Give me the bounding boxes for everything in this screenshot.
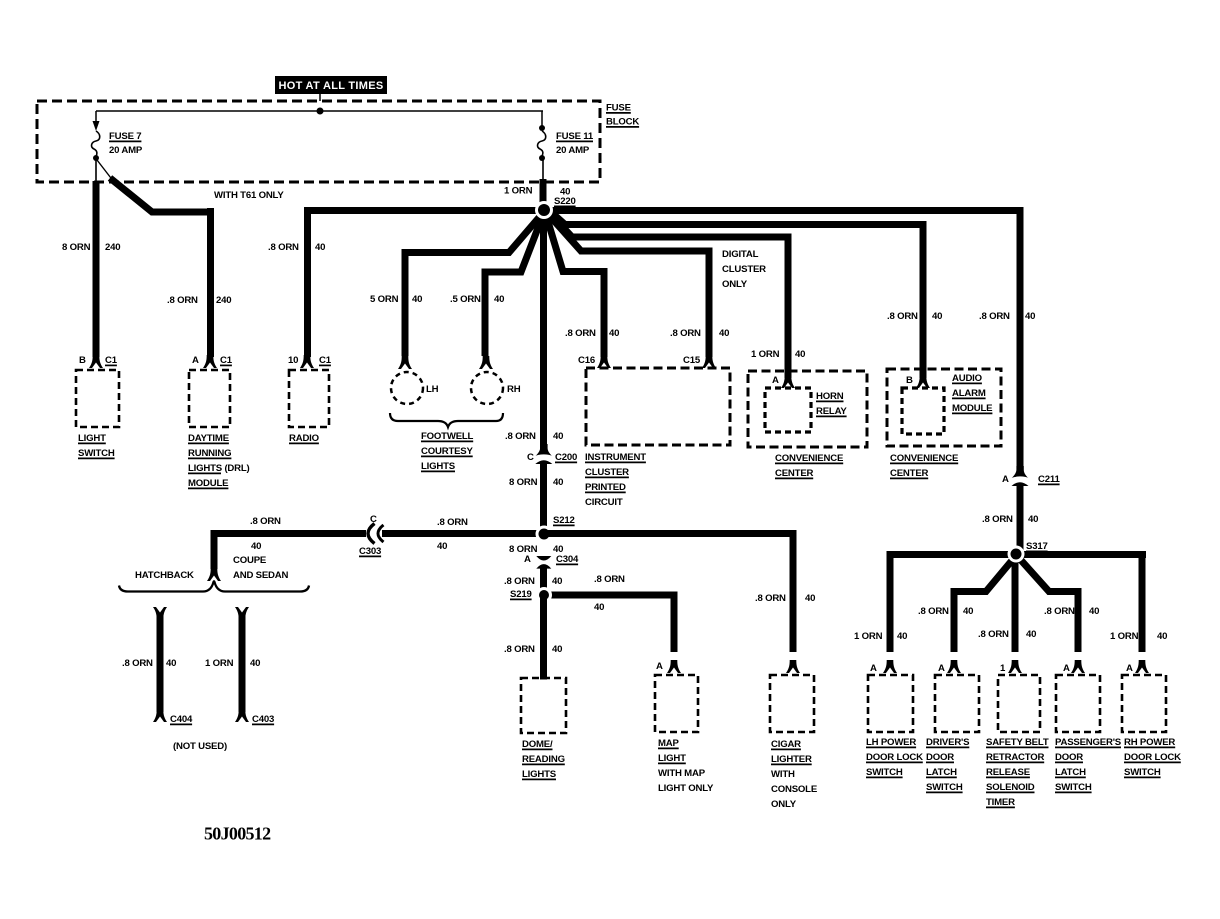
svg-text:C211: C211 xyxy=(1038,474,1060,485)
svg-text:MODULE: MODULE xyxy=(188,478,229,489)
fuse block dashed box xyxy=(37,101,600,182)
wire label .8 ORN 40 above C200 xyxy=(505,431,563,442)
svg-text:A: A xyxy=(524,554,531,565)
svg-text:SWITCH: SWITCH xyxy=(1124,767,1161,778)
svg-text:1 ORN: 1 ORN xyxy=(854,631,883,642)
svg-text:HORN: HORN xyxy=(816,391,844,402)
note NOT USED xyxy=(173,741,227,752)
passengers door latch switch xyxy=(1055,675,1122,793)
svg-text:40: 40 xyxy=(494,294,504,305)
svg-text:.8 ORN: .8 ORN xyxy=(755,593,786,604)
wire S220 to horn relay, 1 ORN 40 xyxy=(550,213,805,378)
svg-text:.8 ORN: .8 ORN xyxy=(979,311,1010,322)
svg-text:CENTER: CENTER xyxy=(890,468,929,479)
radio xyxy=(289,370,329,444)
RH footwell lamp xyxy=(471,356,521,404)
svg-text:LIGHT ONLY: LIGHT ONLY xyxy=(658,783,714,794)
svg-text:50J00512: 50J00512 xyxy=(204,824,271,844)
connector C200 pin C xyxy=(527,444,577,464)
svg-text:LH: LH xyxy=(426,384,439,395)
svg-text:S219: S219 xyxy=(510,589,532,600)
svg-text:40: 40 xyxy=(552,576,562,587)
svg-text:WITH T61 ONLY: WITH T61 ONLY xyxy=(214,190,284,201)
svg-text:C303: C303 xyxy=(359,546,381,557)
wire S219 to dome lights, .8 ORN 40 xyxy=(504,595,562,680)
audio alarm pin B xyxy=(906,375,930,388)
svg-text:(NOT USED): (NOT USED) xyxy=(173,741,227,752)
svg-text:LATCH: LATCH xyxy=(926,767,957,778)
svg-text:40: 40 xyxy=(795,349,805,360)
svg-text:DOOR LOCK: DOOR LOCK xyxy=(866,752,923,763)
svg-text:CONSOLE: CONSOLE xyxy=(771,784,818,795)
svg-text:DAYTIME: DAYTIME xyxy=(188,433,230,444)
svg-text:40: 40 xyxy=(166,658,176,669)
svg-text:LIGHTS: LIGHTS xyxy=(421,461,456,472)
svg-text:C1: C1 xyxy=(319,355,332,366)
connector C1 light switch pin B xyxy=(79,355,118,368)
svg-text:ALARM: ALARM xyxy=(952,388,986,399)
bus wire inside fuse block xyxy=(96,110,543,112)
LH footwell lamp xyxy=(391,356,439,404)
svg-text:MODULE: MODULE xyxy=(952,403,993,414)
svg-text:S212: S212 xyxy=(553,515,575,526)
brace hatchback group xyxy=(119,581,309,591)
connector C303 pin C xyxy=(359,514,384,557)
map light xyxy=(655,675,714,794)
svg-text:DOME/: DOME/ xyxy=(522,739,553,750)
svg-text:ONLY: ONLY xyxy=(722,279,748,290)
svg-text:S220: S220 xyxy=(554,196,576,207)
svg-text:S317: S317 xyxy=(1026,541,1048,552)
svg-text:.8 ORN: .8 ORN xyxy=(887,311,918,322)
connector C1 radio pin 10 xyxy=(288,355,332,368)
svg-text:TIMER: TIMER xyxy=(986,797,1015,808)
drivers door latch switch xyxy=(926,675,979,793)
svg-text:A: A xyxy=(1063,663,1070,674)
svg-text:SWITCH: SWITCH xyxy=(926,782,963,793)
svg-text:240: 240 xyxy=(216,295,231,306)
svg-text:COUPE: COUPE xyxy=(233,555,267,566)
svg-text:RUNNING: RUNNING xyxy=(188,448,231,459)
svg-text:HOT AT ALL TIMES: HOT AT ALL TIMES xyxy=(278,80,383,92)
svg-text:C: C xyxy=(370,514,377,525)
svg-text:40: 40 xyxy=(1028,514,1038,525)
svg-text:C200: C200 xyxy=(555,452,577,463)
passengers door latch switch pin A xyxy=(1063,660,1085,674)
svg-text:A: A xyxy=(656,661,663,672)
svg-text:.8 ORN: .8 ORN xyxy=(670,328,701,339)
svg-text:CONVENIENCE: CONVENIENCE xyxy=(775,453,844,464)
svg-text:C: C xyxy=(527,452,534,463)
wire S317 to RH power door lock switch, 1 ORN 40 xyxy=(1110,551,1167,652)
note DIGITAL CLUSTER ONLY xyxy=(722,249,766,290)
svg-text:40: 40 xyxy=(552,644,562,655)
svg-text:INSTRUMENT: INSTRUMENT xyxy=(585,452,646,463)
svg-text:B: B xyxy=(906,375,913,386)
wire fuse11 to splice S220, 1 ORN 40 xyxy=(504,158,570,212)
svg-text:40: 40 xyxy=(719,328,729,339)
svg-text:LIGHT: LIGHT xyxy=(78,433,106,444)
fuse F7 20A xyxy=(92,111,143,161)
drivers door latch switch pin A xyxy=(938,660,961,674)
svg-text:40: 40 xyxy=(437,541,447,552)
bus junction node xyxy=(317,108,324,115)
cigar lighter connector xyxy=(786,660,800,673)
RH power door lock switch xyxy=(1122,675,1181,778)
svg-text:RH: RH xyxy=(507,384,521,395)
svg-text:SWITCH: SWITCH xyxy=(866,767,903,778)
svg-text:.8 ORN: .8 ORN xyxy=(918,606,949,617)
RH power door lock switch pin A xyxy=(1126,660,1149,674)
splice S219 xyxy=(510,587,552,603)
wire S219 to map light, .8 ORN 40 xyxy=(544,574,674,652)
connector C1 DRL pin A xyxy=(192,355,233,368)
svg-text:FOOTWELL: FOOTWELL xyxy=(421,431,474,442)
svg-text:WITH: WITH xyxy=(771,769,795,780)
svg-text:.8 ORN: .8 ORN xyxy=(122,658,153,669)
svg-text:A: A xyxy=(772,375,779,386)
svg-text:.5 ORN: .5 ORN xyxy=(450,294,481,305)
wire labels .8 ORN 40 (left of C303) xyxy=(250,516,281,552)
map light connector pin A xyxy=(656,660,681,673)
svg-text:C15: C15 xyxy=(683,355,701,366)
instrument cluster printed circuit xyxy=(585,368,730,508)
svg-text:40: 40 xyxy=(315,242,325,253)
svg-text:MAP: MAP xyxy=(658,738,680,749)
svg-text:LIGHTS: LIGHTS xyxy=(522,769,557,780)
wire label .8 ORN 240 xyxy=(167,295,231,306)
svg-text:LH POWER: LH POWER xyxy=(866,737,916,748)
svg-text:.8 ORN: .8 ORN xyxy=(437,517,468,528)
svg-text:.8 ORN: .8 ORN xyxy=(504,644,535,655)
connector C211 pin A xyxy=(1002,466,1060,486)
svg-text:C16: C16 xyxy=(578,355,595,366)
wire S220 to C15, .8 ORN 40 xyxy=(548,214,729,357)
svg-text:40: 40 xyxy=(251,541,261,552)
svg-text:DRIVER'S: DRIVER'S xyxy=(926,737,970,748)
connector C304 pin A xyxy=(524,554,579,569)
svg-text:40: 40 xyxy=(553,477,563,488)
svg-text:A: A xyxy=(1126,663,1133,674)
svg-text:1 ORN: 1 ORN xyxy=(751,349,780,360)
svg-text:40: 40 xyxy=(897,631,907,642)
svg-text:COURTESY: COURTESY xyxy=(421,446,474,457)
svg-text:HATCHBACK: HATCHBACK xyxy=(135,570,194,581)
svg-text:ONLY: ONLY xyxy=(771,799,797,810)
wire label .8 ORN 40 (radio) xyxy=(268,242,325,253)
svg-text:.8 ORN: .8 ORN xyxy=(505,431,536,442)
wire labels .8 ORN 40 (right of C303) xyxy=(437,517,468,552)
daytime running lights module xyxy=(188,370,250,489)
wire label 8 ORN 40 above C304 xyxy=(509,544,563,555)
svg-text:40: 40 xyxy=(963,606,973,617)
svg-text:40: 40 xyxy=(250,658,260,669)
svg-text:.8 ORN: .8 ORN xyxy=(565,328,596,339)
wire S220 right to C211, .8 ORN 40 xyxy=(544,207,1035,471)
safety belt retractor release solenoid timer xyxy=(986,675,1049,808)
light switch xyxy=(76,370,119,459)
svg-text:8 ORN: 8 ORN xyxy=(509,477,538,488)
svg-text:A: A xyxy=(870,663,877,674)
HOT AT ALL TIMES banner xyxy=(275,76,387,101)
svg-text:240: 240 xyxy=(105,242,120,253)
svg-text:40: 40 xyxy=(609,328,619,339)
svg-text:.8 ORN: .8 ORN xyxy=(504,576,535,587)
splice S317 xyxy=(1008,541,1048,563)
convenience center label (audio) xyxy=(890,453,959,479)
wire S317 to LH power door lock switch, 1 ORN 40 xyxy=(854,551,907,652)
wire S220 to audio alarm module, .8 ORN 40 xyxy=(551,212,942,378)
svg-text:C1: C1 xyxy=(220,355,233,366)
wire C200 to S212, 8 ORN 40 xyxy=(509,462,563,536)
svg-text:1 ORN: 1 ORN xyxy=(504,186,533,197)
wire C304 to S219, .8 ORN 40 xyxy=(504,568,562,598)
svg-text:1 ORN: 1 ORN xyxy=(205,658,234,669)
wire fuse7 to light switch xyxy=(95,158,97,357)
splice S220 xyxy=(535,196,576,219)
horn relay pin A xyxy=(772,375,795,388)
svg-text:.8 ORN: .8 ORN xyxy=(268,242,299,253)
svg-text:B: B xyxy=(79,355,86,366)
svg-text:SOLENOID: SOLENOID xyxy=(986,782,1035,793)
svg-text:PASSENGER'S: PASSENGER'S xyxy=(1055,737,1122,748)
svg-text:DOOR: DOOR xyxy=(926,752,954,763)
svg-text:SWITCH: SWITCH xyxy=(78,448,115,459)
svg-text:CONVENIENCE: CONVENIENCE xyxy=(890,453,959,464)
svg-text:.8 ORN: .8 ORN xyxy=(594,574,625,585)
svg-text:C304: C304 xyxy=(556,554,579,565)
LH power door lock switch pin A xyxy=(870,660,897,674)
cigar lighter xyxy=(770,675,818,810)
wire S220 to C16, .8 ORN 40 xyxy=(546,215,619,357)
wire fuse7 to DRL module xyxy=(97,160,211,357)
svg-text:A: A xyxy=(1002,474,1009,485)
svg-text:FUSE: FUSE xyxy=(606,103,632,114)
brace footwell group xyxy=(390,413,503,472)
svg-text:.8 ORN: .8 ORN xyxy=(167,295,198,306)
wire C211 to S317, .8 ORN 40 xyxy=(982,483,1038,553)
wire S220 left to radio xyxy=(308,207,545,357)
wire label 8 ORN 240 xyxy=(62,242,120,253)
svg-text:DOOR LOCK: DOOR LOCK xyxy=(1124,752,1181,763)
svg-text:.8 ORN: .8 ORN xyxy=(978,629,1009,640)
svg-text:1: 1 xyxy=(1000,663,1006,674)
svg-text:40: 40 xyxy=(594,602,604,613)
wire S220 to LH footwell light, 5 ORN 40 xyxy=(370,214,542,356)
svg-text:RELAY: RELAY xyxy=(816,406,847,417)
safety belt retractor release solenoid timer pin 1 xyxy=(1000,660,1022,674)
svg-text:AUDIO: AUDIO xyxy=(952,373,983,384)
LH power door lock switch xyxy=(866,675,923,778)
svg-text:FUSE 11: FUSE 11 xyxy=(556,131,594,142)
FUSE BLOCK label xyxy=(606,103,639,128)
connector C403 (not used) xyxy=(205,607,274,725)
svg-text:CIRCUIT: CIRCUIT xyxy=(585,497,623,508)
svg-text:FUSE 7: FUSE 7 xyxy=(109,131,141,142)
svg-text:.8 ORN: .8 ORN xyxy=(1044,606,1075,617)
svg-text:10: 10 xyxy=(288,355,298,366)
svg-text:WITH MAP: WITH MAP xyxy=(658,768,706,779)
horn relay xyxy=(748,371,867,447)
svg-text:40: 40 xyxy=(805,593,815,604)
svg-text:CIGAR: CIGAR xyxy=(771,739,801,750)
svg-text:DIGITAL: DIGITAL xyxy=(722,249,759,260)
svg-text:CLUSTER: CLUSTER xyxy=(585,467,629,478)
svg-text:40: 40 xyxy=(1026,629,1036,640)
connector C16 xyxy=(578,355,611,368)
wire S317 to passengers door latch switch, .8 ORN 40 xyxy=(1019,558,1099,652)
svg-text:40: 40 xyxy=(412,294,422,305)
svg-text:1 ORN: 1 ORN xyxy=(1110,631,1139,642)
convenience center label (horn) xyxy=(775,453,844,479)
svg-text:LIGHTS (DRL): LIGHTS (DRL) xyxy=(188,463,250,474)
svg-text:PRINTED: PRINTED xyxy=(585,482,626,493)
svg-text:20 AMP: 20 AMP xyxy=(109,145,143,156)
svg-text:RETRACTOR: RETRACTOR xyxy=(986,752,1045,763)
svg-text:DOOR: DOOR xyxy=(1055,752,1083,763)
wire S220 to RH footwell light, .5 ORN 40 xyxy=(450,215,543,356)
svg-text:RADIO: RADIO xyxy=(289,433,320,444)
svg-text:RELEASE: RELEASE xyxy=(986,767,1031,778)
svg-text:40: 40 xyxy=(1157,631,1167,642)
wire S212 right to cigar lighter, .8 ORN 40 xyxy=(544,530,815,652)
svg-text:SWITCH: SWITCH xyxy=(1055,782,1092,793)
dome reading lights xyxy=(521,678,566,780)
svg-text:.8 ORN: .8 ORN xyxy=(982,514,1013,525)
svg-text:C1: C1 xyxy=(105,355,118,366)
splice S212 xyxy=(536,515,575,543)
note HATCHBACK / COUPE AND SEDAN xyxy=(135,555,289,581)
svg-text:READING: READING xyxy=(522,754,565,765)
connector C404 (not used) xyxy=(122,607,193,725)
svg-text:SAFETY BELT: SAFETY BELT xyxy=(986,737,1049,748)
svg-text:8 ORN: 8 ORN xyxy=(62,242,91,253)
svg-text:A: A xyxy=(192,355,199,366)
svg-text:C404: C404 xyxy=(170,714,193,725)
S317 distribution bar xyxy=(888,551,1146,558)
svg-text:LIGHTER: LIGHTER xyxy=(771,754,812,765)
figure number 50J00512 xyxy=(204,824,271,844)
svg-text:40: 40 xyxy=(553,431,563,442)
svg-text:40: 40 xyxy=(1025,311,1035,322)
svg-text:BLOCK: BLOCK xyxy=(606,117,639,128)
svg-text:LATCH: LATCH xyxy=(1055,767,1086,778)
wire S317 to drivers door latch switch, .8 ORN 40 xyxy=(918,558,1014,652)
wire S220 trunk down to C200 xyxy=(540,206,547,449)
svg-text:5 ORN: 5 ORN xyxy=(370,294,399,305)
connector C15 xyxy=(683,355,716,368)
audio alarm module xyxy=(887,369,1001,446)
svg-text:AND SEDAN: AND SEDAN xyxy=(233,570,289,581)
svg-text:RH POWER: RH POWER xyxy=(1124,737,1175,748)
svg-text:C403: C403 xyxy=(252,714,274,725)
svg-text:.8 ORN: .8 ORN xyxy=(250,516,281,527)
svg-text:CENTER: CENTER xyxy=(775,468,814,479)
note WITH T61 ONLY xyxy=(214,190,284,201)
svg-text:A: A xyxy=(938,663,945,674)
svg-text:40: 40 xyxy=(932,311,942,322)
wire S317 to safety belt timer, .8 ORN 40 xyxy=(978,556,1036,652)
wire S212 left to C303 and hatchback stub xyxy=(207,530,544,581)
svg-text:20 AMP: 20 AMP xyxy=(556,145,590,156)
svg-text:CLUSTER: CLUSTER xyxy=(722,264,766,275)
svg-text:LIGHT: LIGHT xyxy=(658,753,686,764)
fuse F11 20A xyxy=(538,111,594,161)
svg-text:40: 40 xyxy=(1089,606,1099,617)
